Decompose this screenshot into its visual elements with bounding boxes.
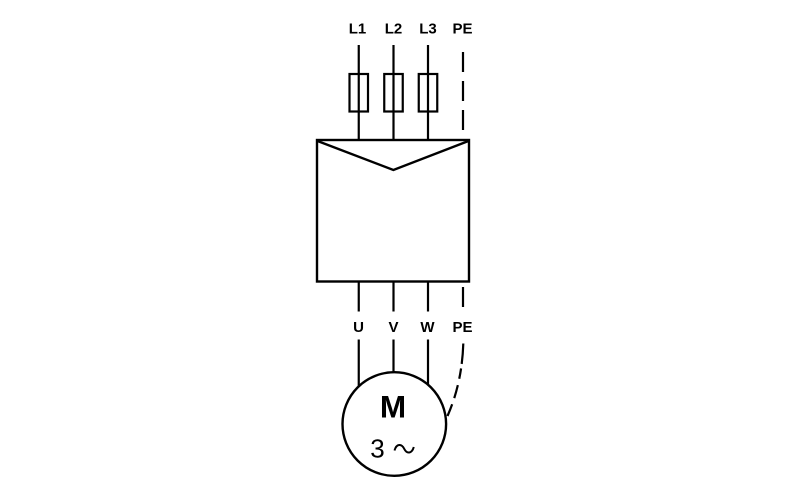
wire U lower: [358, 340, 360, 386]
fuse F2: [384, 74, 403, 112]
wire V upper: [392, 282, 394, 312]
wire L1: [358, 45, 360, 140]
label ~ (AC symbol): [395, 445, 414, 452]
svg-text:L2: L2: [385, 21, 403, 38]
wire U upper: [358, 282, 360, 312]
wire L2: [392, 45, 394, 140]
motor M1: [343, 372, 447, 476]
fuse F1: [350, 74, 369, 112]
wire PE middle (dashed): [462, 287, 464, 307]
wire W lower: [427, 340, 429, 385]
svg-text:L3: L3: [419, 21, 437, 38]
svg-text:3: 3: [370, 434, 384, 464]
starter box U1: [317, 140, 469, 282]
starter box chevron: [318, 141, 469, 170]
svg-text:U: U: [353, 319, 364, 336]
svg-text:W: W: [420, 319, 435, 336]
wire PE top (dashed): [462, 52, 464, 140]
wire PE lower (dashed, to motor frame): [448, 344, 464, 417]
svg-text:M: M: [380, 389, 406, 425]
svg-text:PE: PE: [452, 319, 472, 336]
svg-text:V: V: [388, 319, 398, 336]
wire W upper: [427, 282, 429, 312]
wire V lower: [392, 340, 394, 373]
wire L3: [427, 45, 429, 140]
fuse F3: [419, 74, 438, 112]
svg-text:PE: PE: [452, 21, 472, 38]
svg-text:L1: L1: [349, 21, 367, 38]
